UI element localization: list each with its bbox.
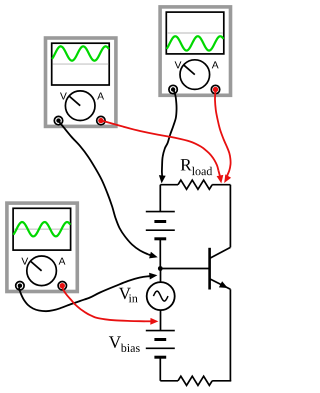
lead: ML meter black probe — [19, 273, 158, 311]
wire: battery B2 down — [159, 357, 161, 381]
wire: Vin to battery B2 — [160, 310, 162, 331]
meter M3 frame — [7, 203, 77, 291]
meter M1 A terminal (red) — [97, 116, 105, 124]
meter M2 V terminal (black) — [169, 85, 177, 93]
meter M1 dial — [65, 91, 95, 121]
meter M2 V label — [175, 61, 182, 68]
lead: TL meter red probe — [101, 120, 223, 183]
wire: emitter vertical down — [229, 289, 231, 381]
meter M2 dial — [180, 60, 210, 90]
meter M3 screen — [13, 208, 71, 250]
wire: collector vertical — [229, 185, 231, 248]
label V_bias — [109, 336, 140, 352]
meter M3 V terminal (black) — [16, 282, 24, 290]
lead: TR meter black probe — [159, 90, 177, 184]
meter M1 A label — [97, 93, 104, 100]
meter M3 waveform trace — [14, 222, 70, 236]
meter M2 waveform trace — [167, 36, 223, 50]
battery B2 V_bias — [146, 331, 175, 358]
meter M2 frame — [160, 7, 230, 95]
meter M1 V label — [60, 93, 67, 100]
source V_in sine symbol — [153, 291, 168, 301]
meter M3 dial — [27, 256, 57, 286]
wire: base wire — [160, 268, 209, 270]
meter M1 screen — [52, 43, 109, 85]
meter M1 waveform trace — [53, 46, 109, 60]
wire: top rail right segment — [212, 184, 230, 186]
meter M3 A label — [59, 258, 66, 265]
wire: top rail left segment — [160, 184, 178, 186]
battery B1 — [146, 212, 175, 239]
lead: TR meter red probe — [215, 90, 231, 183]
meter M1 frame — [46, 38, 116, 126]
label V_in — [119, 288, 138, 303]
resistor R_E bottom — [178, 376, 212, 385]
wire: battery B1 to base node — [159, 239, 161, 269]
resistor R_load — [178, 180, 212, 189]
meter M3 V label — [21, 258, 28, 265]
wire: node to Vin source — [160, 269, 162, 283]
transistor Q1 — [210, 247, 231, 289]
meter M1 V terminal (black) — [54, 116, 62, 124]
meter M2 screen — [166, 12, 224, 54]
lead: ML meter red probe — [61, 285, 158, 324]
wire: bottom rail left segment — [160, 380, 178, 382]
wire: bottom rail right segment — [212, 379, 230, 382]
meter M2 A terminal (red) — [211, 85, 219, 93]
meter M3 A terminal (red) — [58, 282, 66, 290]
source V_in circle — [147, 282, 175, 310]
node: base junction dot — [158, 266, 163, 271]
label R_load — [181, 159, 213, 175]
meter M2 A label — [212, 61, 219, 68]
lead: TL meter black probe — [58, 121, 157, 258]
wire: left vertical to battery — [159, 185, 161, 212]
